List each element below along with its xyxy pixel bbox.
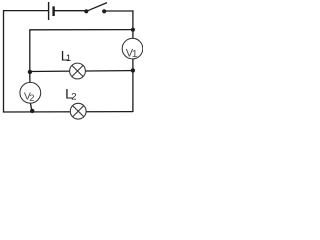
label L2 xyxy=(65,86,76,103)
wire battery to switch pivot xyxy=(54,10,87,12)
wire right rail middle (V1 bottom to L1 row) xyxy=(132,59,134,71)
wire inner left vertical xyxy=(29,29,31,72)
node junction dot (L1 row / right rail) xyxy=(131,68,135,72)
node junction dot (inner rail / right rail) xyxy=(131,28,135,32)
label L1 xyxy=(61,48,71,64)
battery cell xyxy=(49,2,54,20)
wire V2 top lead xyxy=(29,72,31,83)
wire right rail lower (L1 row to bottom corner) xyxy=(132,70,134,112)
wire right rail upper (corner to V1 top) xyxy=(132,10,134,38)
lamp L1 xyxy=(70,63,86,79)
node junction dot (V2 bottom on bottom rail) xyxy=(30,109,34,113)
voltmeter V2 xyxy=(20,82,41,104)
lamp L2 xyxy=(70,103,86,119)
wire switch contact to top-right corner xyxy=(104,10,133,12)
switch S xyxy=(84,3,107,14)
svg-text:1: 1 xyxy=(132,48,138,60)
wire top-left (battery to left corner) xyxy=(4,10,49,12)
wire V2 bottom lead xyxy=(30,103,32,112)
voltmeter V1 xyxy=(122,38,143,60)
wire inner rail (node A to right rail) xyxy=(30,29,133,31)
wire bottom rail xyxy=(3,111,133,113)
node junction dot (node A above V2) xyxy=(28,70,32,74)
svg-text:2: 2 xyxy=(71,92,76,103)
svg-text:2: 2 xyxy=(29,93,34,104)
wire L1 row xyxy=(30,70,133,73)
svg-text:1: 1 xyxy=(66,53,71,64)
wire left rail xyxy=(3,10,5,112)
